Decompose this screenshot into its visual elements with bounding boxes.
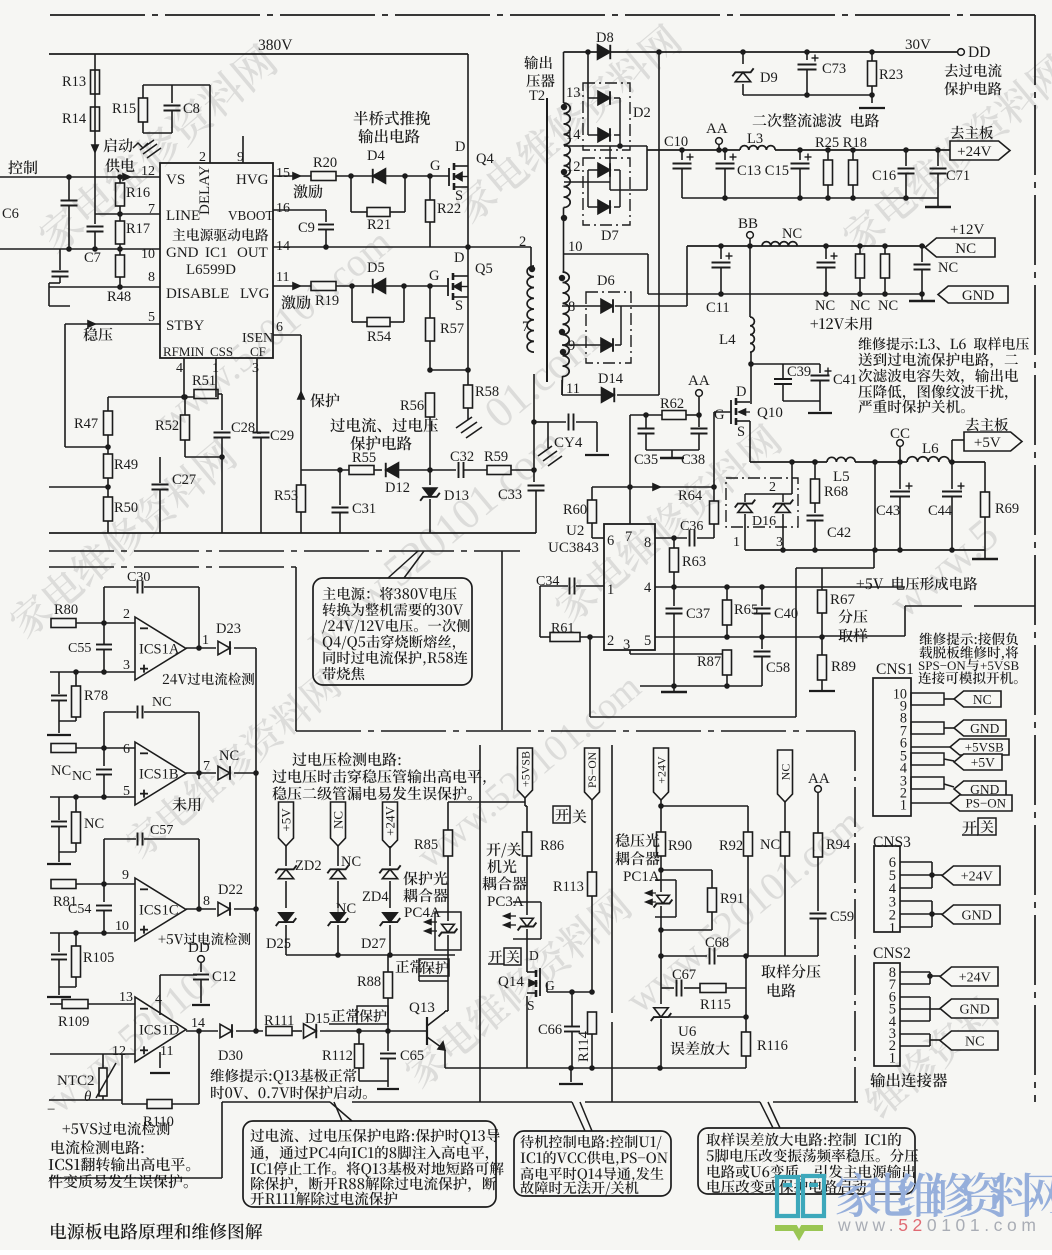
resistor NC1 12v	[859, 246, 861, 254]
svg-text:NC: NC	[778, 764, 792, 781]
separator dash-dot y551	[49, 550, 520, 552]
capacitor C37	[673, 587, 675, 606]
resistor NC2 12v	[884, 246, 886, 254]
wire r111 to d15	[292, 1030, 302, 1032]
svg-text:C29: C29	[270, 428, 294, 444]
wire tap9	[562, 344, 603, 346]
capacitor C68	[709, 948, 711, 965]
svg-text:D23: D23	[216, 621, 241, 637]
svg-text:+12V: +12V	[950, 222, 984, 238]
capacitor NC icsb	[103, 748, 105, 766]
wire c39/c41 bottom	[783, 400, 820, 402]
svg-text:NC: NC	[336, 901, 356, 917]
capacitor C67	[676, 980, 678, 997]
wire nc mid	[337, 881, 339, 908]
wire cns1 pin1 to PS-ON	[911, 802, 950, 804]
svg-text:L6: L6	[922, 441, 939, 457]
svg-text:R86: R86	[540, 838, 564, 854]
inductor L3	[740, 146, 775, 150]
resistor NC icsb pulldown	[72, 812, 81, 843]
svg-text:D12: D12	[385, 480, 410, 496]
svg-text:R19: R19	[315, 293, 339, 309]
flag NC cns2	[940, 1031, 998, 1050]
wire 5V line	[750, 461, 827, 463]
label OCP title	[330, 418, 438, 433]
svg-text:CF: CF	[250, 344, 266, 359]
wire 24v column	[389, 846, 391, 866]
resistor R89	[821, 637, 823, 655]
wire ISEN pin6	[273, 334, 301, 336]
svg-text:8: 8	[203, 894, 210, 909]
svg-text:12: 12	[112, 1044, 126, 1059]
svg-text:D7: D7	[601, 228, 619, 244]
resistor R91	[708, 888, 717, 912]
resistor R86	[526, 806, 528, 832]
svg-text:R90: R90	[668, 838, 692, 854]
svg-text:8: 8	[644, 535, 651, 551]
op-amp U2 UC3843 box	[604, 524, 655, 650]
wire L6 out	[949, 461, 985, 463]
svg-text:R16: R16	[126, 185, 150, 201]
svg-text:C54: C54	[68, 902, 91, 917]
diode bus vertical	[255, 648, 257, 1031]
wire r109 to pin13	[50, 1003, 62, 1005]
svg-text:CNS1: CNS1	[876, 661, 914, 678]
capacitor C10	[681, 150, 683, 160]
wire pin8 DISABLE	[49, 286, 160, 288]
resistor R94	[814, 833, 823, 857]
wire R60 to pin6	[592, 537, 604, 539]
svg-text:R111: R111	[264, 1013, 294, 1029]
svg-text:ICS1D: ICS1D	[139, 1023, 179, 1039]
svg-text:G: G	[429, 268, 440, 284]
wire y487 gate drive row	[592, 486, 714, 488]
polarity dot sec4	[559, 275, 565, 281]
svg-text:2: 2	[607, 633, 614, 649]
svg-text:7: 7	[148, 202, 155, 217]
wire nc column	[337, 846, 339, 866]
resistor R23	[871, 52, 873, 61]
wire to +5V flag	[951, 440, 953, 462]
svg-text:GND: GND	[962, 288, 995, 304]
svg-text:R65: R65	[734, 602, 758, 618]
svg-text:R51: R51	[192, 373, 216, 389]
diode D27	[383, 913, 397, 922]
divider left of connector section	[854, 731, 856, 1102]
wire r85 top to 5vsb	[448, 801, 525, 803]
wire primary top	[531, 246, 534, 248]
svg-text:30V: 30V	[905, 37, 931, 53]
label weiyong	[172, 797, 200, 811]
wire d23 to bus	[234, 647, 256, 649]
svg-text:4: 4	[155, 992, 162, 1007]
wire 5vsb down	[524, 798, 526, 806]
optocoupler PC1A	[655, 879, 676, 881]
svg-text:L3: L3	[747, 131, 763, 147]
svg-text:9: 9	[568, 338, 575, 354]
svg-text:D13: D13	[444, 488, 469, 504]
wire lvg to Q5 gate	[336, 285, 448, 287]
svg-text:11: 11	[276, 270, 289, 285]
ground rail primary	[49, 532, 536, 534]
svg-text:+5V: +5V	[279, 808, 294, 832]
svg-text:C33: C33	[498, 487, 522, 503]
svg-text:R110: R110	[143, 1114, 174, 1130]
label PC4A titles	[403, 871, 447, 885]
resistor R60	[591, 487, 593, 500]
svg-text:Q5: Q5	[475, 261, 493, 277]
resistor R52	[184, 397, 186, 415]
wire sense to border	[822, 635, 905, 637]
svg-text:380V: 380V	[258, 37, 293, 54]
svg-text:AA: AA	[688, 373, 710, 389]
wire nc diode to bus	[234, 772, 256, 774]
resistor R81	[51, 880, 76, 889]
flag +24V vertical standby	[654, 748, 669, 800]
svg-text:+5VSB: +5VSB	[980, 658, 1019, 673]
label gongdian	[105, 158, 134, 172]
svg-text:D: D	[529, 948, 539, 963]
resistor R116	[745, 1017, 747, 1032]
svg-text:D25: D25	[266, 936, 291, 952]
svg-text:3: 3	[252, 361, 259, 376]
wire cns2 654 to GND	[900, 996, 930, 998]
wire d25 bottom	[285, 925, 287, 955]
capacitor C7	[87, 226, 104, 228]
wire 12V bottom rail	[648, 293, 922, 295]
svg-text:14: 14	[566, 127, 581, 143]
wire pin11 LVG	[273, 285, 311, 287]
label jili1	[293, 184, 322, 198]
label to mainboard 24V	[951, 126, 993, 140]
wire zd4 mid	[389, 881, 391, 908]
svg-text:D4: D4	[367, 148, 385, 164]
capacitor C33	[533, 470, 535, 482]
svg-text:NC: NC	[341, 854, 361, 870]
label output connector	[870, 1073, 947, 1088]
resistor R87	[723, 650, 732, 675]
capacitor C57 loop	[104, 838, 136, 840]
resistor R25	[827, 150, 829, 160]
flag +24V cns2	[940, 967, 998, 986]
capacitor C58	[761, 637, 763, 649]
callout ocp box	[243, 1121, 496, 1207]
svg-text:L5: L5	[833, 469, 850, 485]
svg-text:16: 16	[276, 201, 290, 216]
svg-text:NTC2: NTC2	[57, 1073, 95, 1089]
transistor Q5 mosfet	[447, 278, 449, 296]
svg-text:NC: NC	[72, 769, 91, 784]
wire d27 bottom	[389, 925, 391, 955]
capacitor C32	[458, 462, 460, 478]
node AA1	[716, 138, 723, 145]
wire cns1 pin6 to 5VSB	[911, 746, 950, 748]
wire icsc bottom	[58, 981, 60, 995]
svg-text:C11: C11	[706, 300, 730, 316]
wire c12 to pin4	[160, 974, 197, 976]
wire pin12 row icsd	[50, 1053, 135, 1055]
label wucha fangda	[670, 1041, 729, 1055]
resistor R54	[367, 318, 390, 327]
svg-text:BB: BB	[738, 216, 758, 232]
fuse symbol	[133, 143, 148, 148]
svg-text:DISABLE: DISABLE	[166, 286, 229, 302]
resistor R91 loop	[661, 869, 712, 871]
svg-text:6: 6	[607, 533, 614, 549]
wire D16 pin2 drop	[791, 462, 793, 494]
svg-text:C41: C41	[833, 372, 857, 388]
wire pin10 row icsc	[50, 932, 135, 934]
resistor R16	[119, 177, 121, 183]
svg-text:C67: C67	[672, 967, 696, 983]
wire d12 node to c32	[430, 469, 456, 471]
capacitor icsb gnd	[51, 821, 67, 823]
svg-text:9: 9	[237, 150, 244, 165]
divider between standby and sampling sections	[611, 745, 613, 1013]
svg-text:C12: C12	[212, 969, 236, 985]
resistor R48	[116, 255, 125, 277]
resistor R61	[540, 636, 550, 638]
svg-text:D8: D8	[596, 30, 614, 46]
svg-text:C31: C31	[352, 501, 376, 517]
wire pin16 VBOOT	[273, 209, 326, 211]
wire D7 parallel rect	[587, 170, 589, 207]
label fenya	[838, 609, 867, 623]
svg-text:NC: NC	[878, 298, 898, 314]
svg-text:R13: R13	[62, 74, 86, 90]
diode block D2 box	[583, 83, 630, 150]
node AA2	[696, 390, 703, 397]
svg-text:C16: C16	[872, 168, 896, 184]
op-amp IC1 L6599D main driver	[160, 163, 273, 358]
svg-text:R22: R22	[437, 201, 461, 217]
wire pin9 stub	[242, 136, 244, 163]
wire cf to c29	[257, 432, 261, 434]
transistor Q13 npn	[426, 1017, 428, 1045]
capacitor C66	[570, 992, 572, 1023]
flag +5V out	[964, 432, 1022, 451]
optocoupler PC3A	[513, 901, 541, 903]
svg-text:5: 5	[148, 310, 155, 325]
wire c67 row	[660, 956, 662, 988]
label PC1A titles	[615, 833, 659, 847]
resistor R112	[358, 1031, 360, 1044]
capacitor input lower	[59, 249, 61, 270]
zener ZD4	[382, 869, 397, 878]
wire L5 to L6	[855, 461, 907, 463]
svg-text:1: 1	[607, 582, 614, 598]
capacitor C12	[200, 962, 202, 972]
svg-text:U2: U2	[566, 523, 584, 539]
resistor R111	[263, 1030, 268, 1032]
wire css/c28 bottom	[184, 440, 186, 457]
svg-text:8: 8	[568, 299, 575, 315]
svg-text:ICS1C: ICS1C	[139, 903, 179, 919]
resistor R62	[662, 411, 686, 420]
label quyang	[838, 628, 867, 642]
wire c68 row	[661, 955, 707, 957]
svg-text:LVG: LVG	[240, 286, 270, 302]
wire icsa output	[186, 647, 216, 649]
wire R15/C8 bottom	[142, 122, 144, 133]
flag GND cns2	[940, 999, 998, 1018]
wire pin2 ground return	[587, 634, 593, 640]
wire pin3 row icsa	[50, 671, 135, 673]
capacitor C38	[691, 428, 708, 430]
svg-text:R88: R88	[357, 974, 381, 990]
diode D23	[218, 641, 230, 655]
page top border	[50, 14, 1035, 16]
label kaiguan q14	[489, 950, 503, 963]
svg-text:IC1: IC1	[205, 245, 228, 261]
svg-text:5: 5	[644, 633, 651, 649]
svg-text:9: 9	[122, 868, 129, 883]
svg-text:R21: R21	[367, 217, 391, 233]
svg-text:R55: R55	[352, 450, 376, 466]
svg-text:R56: R56	[400, 398, 424, 414]
wire left column down icsc	[58, 933, 60, 952]
capacitor C40	[761, 587, 763, 606]
svg-text:D15: D15	[305, 1011, 330, 1027]
svg-text:C8: C8	[183, 101, 200, 117]
wire source to sense	[430, 369, 468, 371]
svg-text:Q14: Q14	[498, 974, 524, 990]
polarity dot sec5	[559, 329, 565, 335]
wire cns1 pins 10/9 to NC	[911, 693, 944, 705]
wire R62 left column	[629, 415, 631, 487]
svg-text:R62: R62	[660, 396, 684, 412]
wire D2 output to bus	[619, 135, 621, 146]
svg-text:NC: NC	[51, 763, 71, 779]
resistor R47	[107, 397, 109, 411]
svg-text:R15: R15	[112, 101, 136, 117]
svg-text:NC: NC	[973, 692, 992, 707]
callout sampling box	[698, 1128, 915, 1194]
svg-text:Q4: Q4	[476, 151, 494, 167]
wire pin4 RFMIN	[183, 358, 185, 397]
wire cns3 246 to 24V	[900, 861, 932, 863]
resistor NC sampling	[784, 802, 786, 832]
svg-text:NC: NC	[955, 241, 976, 257]
resistor R15	[139, 98, 148, 122]
svg-text:+24V: +24V	[959, 971, 991, 986]
wire pin2 DELAY	[209, 85, 211, 163]
wire pc3a led	[526, 902, 528, 915]
ground T 24V	[937, 198, 939, 207]
ground slash R58	[456, 417, 472, 428]
wire nc bottom	[337, 925, 339, 955]
annotation L3 L6 tip	[859, 337, 1029, 350]
op-amp ICS1A	[135, 617, 186, 680]
wire icsd output	[186, 1030, 218, 1032]
callout leader standby	[572, 1102, 585, 1131]
svg-text:D5: D5	[367, 260, 385, 276]
wire rfmin row	[108, 396, 194, 398]
capacitor CY4	[568, 414, 570, 431]
svg-text:C44: C44	[928, 503, 953, 519]
svg-text:AA: AA	[706, 121, 728, 137]
svg-text:CNS2: CNS2	[873, 945, 911, 962]
connector CNS3 box	[874, 846, 900, 932]
svg-text:11: 11	[160, 1044, 173, 1059]
callout leader main	[388, 551, 418, 578]
transformer T2 primary winding	[527, 266, 534, 352]
wire tap10	[563, 253, 648, 255]
wire q14 source	[526, 996, 528, 1068]
wire gnd pin10	[0, 248, 160, 250]
capacitor C31	[339, 470, 341, 505]
svg-text:R57: R57	[440, 321, 464, 337]
svg-text:4: 4	[644, 580, 652, 596]
ground bar C41	[808, 412, 832, 414]
annotation OVP title	[292, 752, 400, 766]
svg-text:NC: NC	[760, 837, 780, 853]
diode D22	[218, 902, 230, 916]
wire ntc2	[102, 1054, 104, 1068]
svg-text:C27: C27	[172, 472, 196, 488]
wire r68 top junction	[812, 459, 818, 465]
wire icsb output	[186, 772, 216, 774]
svg-text:D9: D9	[760, 70, 778, 86]
transformer T2 secondary upper winding	[564, 103, 571, 208]
capacitor C36	[689, 530, 691, 547]
svg-text:C32: C32	[450, 449, 474, 465]
wire 30V return	[743, 94, 872, 96]
flag +24V cns3	[942, 866, 1000, 885]
svg-text:3: 3	[123, 658, 130, 673]
flag +5VSB vertical	[518, 748, 533, 798]
node BB	[747, 232, 754, 239]
wire cns1 pins 3/2 to GND	[911, 777, 944, 789]
main section box left edge	[295, 567, 297, 731]
capacitor C71	[937, 150, 939, 166]
svg-text:D: D	[455, 139, 465, 155]
svg-text:R58: R58	[475, 384, 499, 400]
svg-text:C7: C7	[84, 250, 101, 266]
wire tap11	[561, 380, 563, 395]
resistor R78	[72, 686, 81, 717]
svg-text:C36: C36	[680, 519, 703, 534]
svg-text:C38: C38	[681, 452, 705, 468]
svg-text:R91: R91	[720, 891, 744, 907]
zener NCz1	[330, 869, 345, 878]
svg-text:C55: C55	[68, 641, 91, 656]
svg-text:CNS3: CNS3	[873, 834, 911, 851]
connector CNS1 box	[873, 678, 911, 816]
ground bar pin11	[150, 1072, 170, 1074]
zener U6	[660, 988, 662, 1004]
svg-text:C66: C66	[538, 1022, 562, 1038]
capacitor C16	[905, 150, 907, 166]
wire pc4a led	[447, 902, 449, 921]
flag +24V vertical	[383, 802, 398, 848]
resistor R88	[387, 955, 389, 972]
transistor Q14 mosfet	[526, 960, 528, 966]
wire secondary mid connector	[563, 208, 565, 273]
svg-text:1: 1	[900, 798, 907, 814]
resistor R19	[311, 282, 336, 291]
resistor R18	[852, 150, 854, 160]
svg-text:OUT: OUT	[237, 245, 268, 261]
ground bar icsb	[47, 863, 71, 865]
svg-text:C10: C10	[664, 134, 688, 150]
wire r81 to pin9	[76, 883, 135, 885]
svg-text:10: 10	[141, 247, 155, 262]
ground plate C12	[192, 1004, 210, 1006]
svg-text:C13 C15: C13 C15	[737, 163, 789, 179]
wire pin4 row	[655, 586, 905, 588]
diode block D6 box	[586, 292, 631, 363]
